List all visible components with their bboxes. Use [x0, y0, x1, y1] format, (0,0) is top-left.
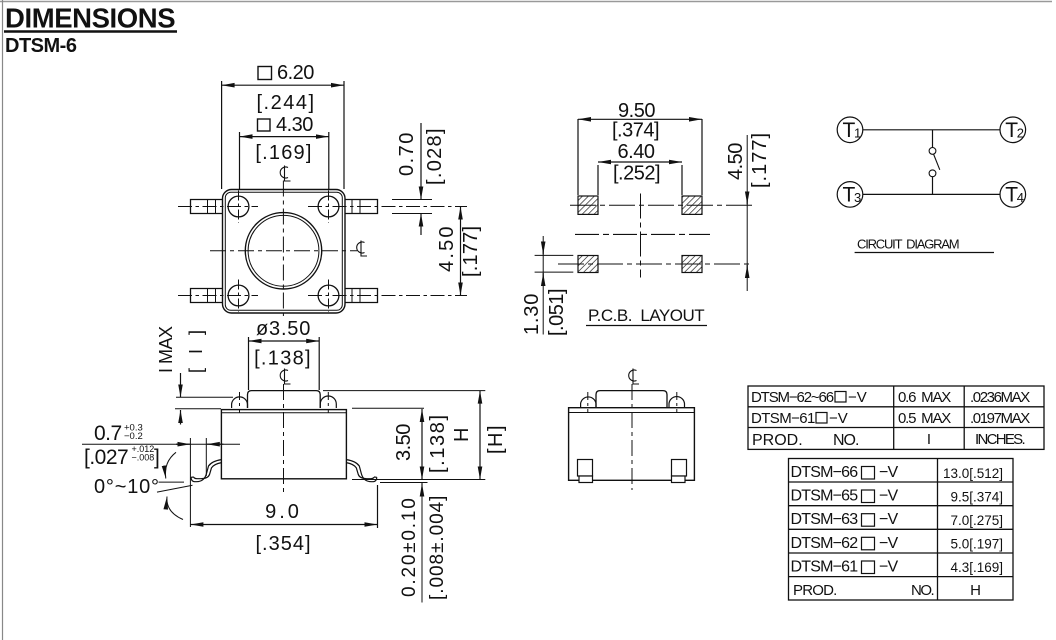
svg-text:0°~10°: 0°~10° — [94, 476, 160, 498]
pad bottom-right — [682, 256, 702, 273]
svg-text:[.169]: [.169] — [255, 142, 312, 164]
svg-text:P.C.B. LAYOUT: P.C.B. LAYOUT — [588, 306, 704, 325]
svg-text:PROD.: PROD. — [793, 582, 837, 599]
left ear (front view) — [581, 397, 596, 408]
svg-text:0.70: 0.70 — [396, 131, 418, 176]
lead bottom-left — [191, 289, 223, 303]
body top plate line — [221, 412, 346, 414]
pcb main horizontal centerline — [575, 233, 710, 235]
plunger (front view) — [596, 391, 667, 408]
dim 1.30 pcb — [535, 254, 574, 256]
gull-wing lead left (side view) — [191, 460, 221, 482]
svg-text:−.008: −.008 — [132, 453, 155, 463]
svg-text:CIRCUIT DIAGRAM: CIRCUIT DIAGRAM — [857, 237, 959, 252]
svg-text:[.008±.004]: [.008±.004] — [427, 495, 448, 600]
dim H (overall height) — [323, 390, 485, 392]
svg-text:[.177]: [.177] — [749, 132, 771, 188]
svg-text:9.0: 9.0 — [265, 501, 302, 523]
svg-text:DIMENSIONS: DIMENSIONS — [5, 3, 175, 34]
svg-text:−V: −V — [879, 559, 899, 576]
corner post circle top-right — [318, 196, 339, 217]
corner post circle bottom-left — [228, 285, 249, 306]
svg-text:4.50: 4.50 — [436, 224, 458, 272]
svg-text:3: 3 — [854, 190, 861, 205]
switch blade — [934, 154, 940, 170]
dim 6.40 — [597, 165, 599, 195]
TABLE 1 — [748, 386, 1044, 449]
svg-text:5.0[.197]: 5.0[.197] — [950, 537, 1003, 552]
table1 square symbols — [835, 392, 846, 403]
switch contact lower — [929, 170, 936, 177]
svg-text:6.40: 6.40 — [618, 141, 655, 163]
dim 3.50 (body height) — [352, 407, 424, 409]
dim o3.50 (plunger) — [248, 337, 250, 390]
svg-text:[.252]: [.252] — [613, 163, 660, 185]
lead top-right — [345, 200, 378, 214]
svg-text:PROD.: PROD. — [752, 432, 803, 449]
svg-text:DTSM−63: DTSM−63 — [791, 511, 859, 528]
ear centerlines — [239, 392, 241, 413]
centerline symbol right of top view — [357, 242, 365, 253]
svg-text:9.5[.374]: 9.5[.374] — [950, 490, 1003, 505]
svg-text:0.5 MAX: 0.5 MAX — [898, 410, 951, 427]
svg-text:DTSM−62~66: DTSM−62~66 — [751, 389, 834, 406]
body top plate line (front view) — [569, 412, 695, 414]
svg-text:[.051]: [.051] — [546, 289, 568, 336]
dim 4.50 pcb — [746, 135, 748, 291]
svg-text:DTSM−62: DTSM−62 — [791, 535, 859, 552]
svg-text:.0236MAX: .0236MAX — [970, 389, 1030, 406]
pad bottom-left — [578, 256, 598, 273]
svg-text:13.0[.512]: 13.0[.512] — [943, 466, 1003, 481]
table 2 texts — [791, 464, 934, 599]
left ear post (side view) — [232, 397, 248, 408]
svg-text:−V: −V — [879, 464, 899, 481]
pcb row centerlines — [558, 194, 752, 278]
centerline symbol top view — [280, 167, 288, 178]
svg-text:4.30: 4.30 — [276, 114, 313, 136]
pad top-right — [682, 196, 702, 214]
switch body (front view) — [569, 408, 695, 481]
circuit diagram underline — [855, 252, 994, 254]
dim 9.0 — [377, 485, 379, 528]
pad top-left — [578, 196, 598, 214]
centerline symbol front view — [629, 370, 637, 381]
svg-text:]: ] — [154, 446, 159, 469]
svg-text:H: H — [451, 428, 473, 442]
svg-text:ø3.50: ø3.50 — [256, 318, 311, 340]
svg-text:I MAX: I MAX — [156, 326, 176, 373]
switch body inner outline (top view) — [225, 192, 342, 310]
svg-text:DTSM−66: DTSM−66 — [791, 464, 859, 481]
svg-text:0.7: 0.7 — [94, 422, 122, 445]
svg-text:.0197MAX: .0197MAX — [970, 410, 1030, 427]
svg-text:NO.: NO. — [911, 582, 934, 599]
gull-wing lead right (side view) — [346, 460, 376, 482]
TABLE 2 — [789, 459, 1014, 601]
svg-text:[ I ]: [ I ] — [186, 325, 206, 373]
svg-text:−V: −V — [829, 410, 848, 427]
centerline symbol side view — [280, 370, 288, 381]
terminal T3 — [837, 182, 863, 208]
svg-text:1: 1 — [854, 126, 861, 141]
wire upper stub — [932, 130, 934, 148]
dim 0.7 lead thickness (leader with tolerances) — [82, 443, 240, 445]
svg-text:−V: −V — [848, 389, 867, 406]
corner post circle bottom-right — [318, 285, 339, 306]
wire T1-T2 — [863, 129, 1000, 131]
svg-text:[.138]: [.138] — [427, 413, 449, 473]
angle reference line — [157, 485, 193, 492]
top view vertical centerline — [282, 181, 284, 317]
svg-text:[.374]: [.374] — [612, 120, 659, 142]
svg-text:1.30: 1.30 — [521, 293, 543, 335]
wire T3-T4 — [863, 193, 1000, 195]
switch body (side view) — [221, 410, 346, 479]
right ear (front view) — [669, 397, 685, 408]
svg-text:DTSM−61: DTSM−61 — [751, 410, 815, 427]
svg-text:DTSM-6: DTSM-6 — [5, 35, 77, 57]
front view vertical centerline — [631, 384, 633, 490]
switch body outer outline (top view) — [223, 190, 346, 314]
square symbol 4.30 — [258, 119, 271, 131]
title underline — [4, 30, 177, 32]
svg-text:4.3[.169]: 4.3[.169] — [950, 560, 1003, 575]
svg-text:−V: −V — [879, 488, 899, 505]
center button inner circle — [248, 215, 319, 286]
top view horizontal centerline — [210, 250, 357, 252]
svg-text:DTSM−61: DTSM−61 — [791, 559, 859, 576]
svg-text:3.50: 3.50 — [393, 424, 415, 461]
side view vertical centerline — [283, 384, 285, 493]
svg-text:[H]: [H] — [485, 424, 507, 454]
corner post circle top-left — [228, 196, 249, 217]
page left border — [2, 0, 4, 640]
lead top-left — [191, 200, 223, 214]
foot right (front view) — [672, 460, 687, 477]
svg-text:[.138]: [.138] — [254, 348, 312, 370]
table 1 texts — [751, 389, 1030, 449]
post vertical centerlines — [239, 191, 329, 313]
right ear post (side view) — [320, 396, 336, 408]
table2 square symbols — [862, 467, 875, 480]
svg-text:7.0[.275]: 7.0[.275] — [950, 513, 1003, 528]
plunger button (side view) — [248, 391, 321, 408]
svg-text:DTSM−65: DTSM−65 — [791, 488, 859, 505]
svg-text:−0.2: −0.2 — [124, 431, 143, 442]
lead bottom-right — [345, 289, 378, 303]
dim 9.50 — [577, 119, 579, 195]
svg-text:H: H — [970, 582, 981, 599]
svg-text:6.20: 6.20 — [277, 62, 314, 84]
switch contact upper — [929, 148, 936, 155]
svg-text:4: 4 — [1017, 190, 1024, 205]
square symbol 6.20 — [258, 67, 272, 80]
terminal T4 — [1000, 182, 1026, 208]
foot left (front view) — [578, 460, 593, 477]
svg-text:INCHES.: INCHES. — [975, 431, 1024, 448]
terminal T2 — [1000, 117, 1026, 143]
svg-text:[.027: [.027 — [84, 446, 128, 469]
wire lower stub — [932, 177, 934, 195]
dim 0.70 (lead width, right of top view) — [392, 199, 432, 201]
angle 0~10 arc — [165, 452, 176, 478]
dim 4.30 — [239, 132, 241, 189]
svg-text:[.177]: [.177] — [460, 226, 482, 277]
svg-text:−V: −V — [879, 535, 899, 552]
dim 6.20 — [221, 81, 223, 189]
svg-text:2: 2 — [1017, 126, 1024, 141]
dim 0.20 (stand-off) — [380, 482, 428, 484]
foot bottom extension (left) — [159, 481, 185, 483]
svg-text:0.20±0.10: 0.20±0.10 — [399, 496, 420, 597]
svg-text:[.028]: [.028] — [424, 127, 446, 185]
tolerance small texts — [124, 423, 154, 463]
ear centerlines (front view) — [587, 392, 589, 413]
svg-text:4.50: 4.50 — [725, 143, 747, 180]
svg-text:NO.: NO. — [833, 432, 858, 449]
svg-text:I: I — [927, 431, 931, 448]
svg-text:[.354]: [.354] — [255, 533, 311, 555]
svg-text:[.244]: [.244] — [256, 92, 315, 114]
svg-text:0.6 MAX: 0.6 MAX — [898, 389, 951, 406]
page top border — [0, 1, 1052, 3]
dim 4.50 (top view right) — [460, 207, 462, 296]
dim I MAX (actuator above body) — [176, 396, 233, 398]
svg-text:−V: −V — [879, 511, 899, 528]
lead centerlines (dash-dot) — [178, 207, 467, 296]
center button outer circle — [245, 213, 321, 289]
terminal T1 — [837, 117, 863, 143]
pcb layout title underline — [586, 325, 707, 327]
